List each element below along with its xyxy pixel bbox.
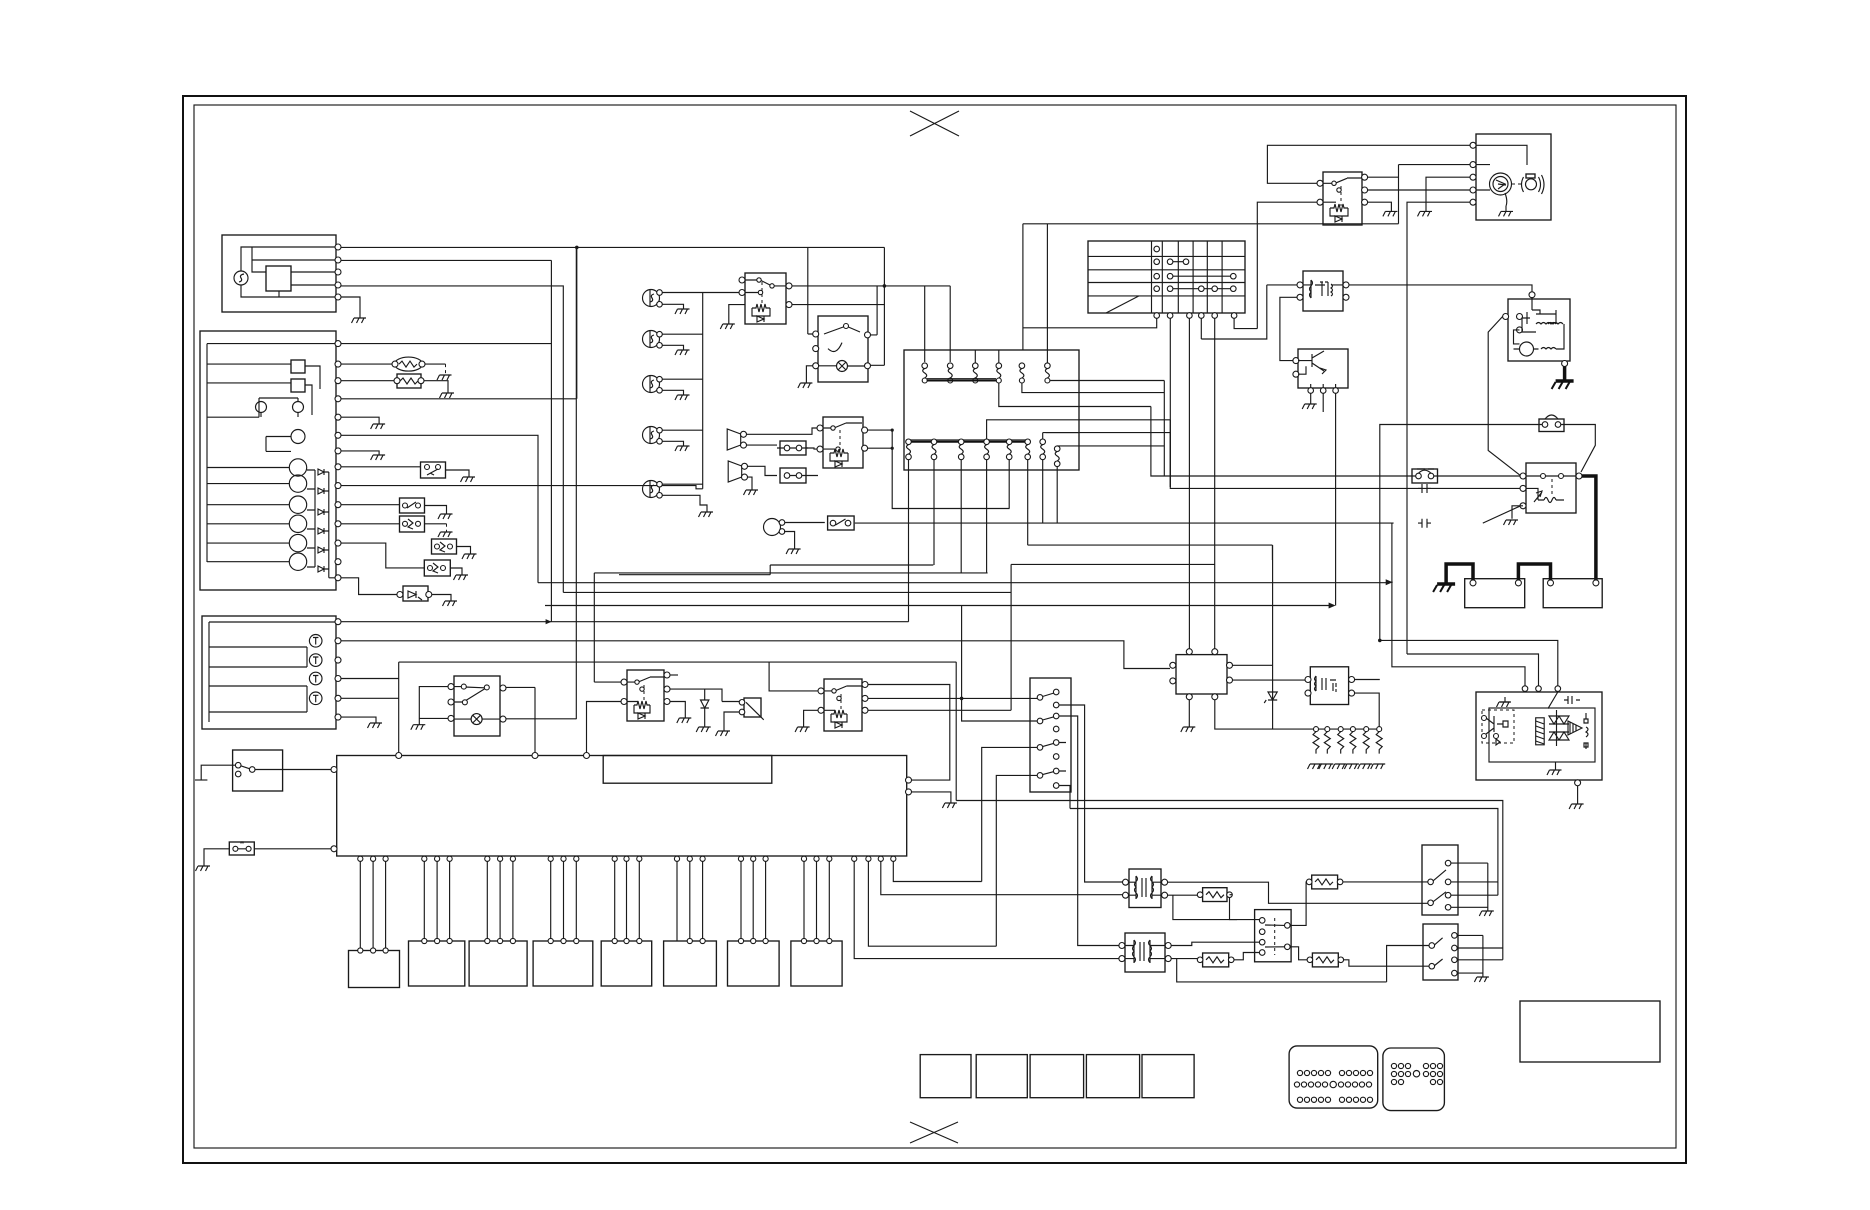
wire: panel pin4 right, down long vertical x575 (341, 247, 576, 719)
wire bundle horizontal y605 to transistor arrow (545, 605, 1332, 607)
relay G starter relay box (1526, 463, 1576, 513)
fuse top row 5 (1019, 363, 1025, 383)
pulse coil windings (1310, 280, 1329, 298)
fusible link (1412, 469, 1438, 483)
transistor bottom pins (1308, 388, 1314, 394)
wire: bar via fuse4 up then exits right (987, 420, 1171, 439)
gauge circle 3 (289, 496, 306, 513)
ECU bottom terminal group 4 (548, 856, 553, 861)
gauge circle 6 (289, 553, 306, 570)
wire: ECU right pin2 to ground (912, 792, 951, 803)
ignition coil 1 box (1129, 869, 1161, 908)
connector blade 2 (1037, 718, 1043, 724)
ground (462, 554, 477, 559)
wire: bulb5 to bus and ground (662, 484, 707, 512)
ECU bottom right group wires to ignition (852, 856, 857, 861)
battery 2 (1543, 579, 1602, 608)
wire: grid pin4 to pulse coil (1201, 285, 1298, 339)
resistor R2 (1203, 953, 1229, 967)
wire: grid pin1 to ignition feed riser (1023, 318, 1157, 328)
indicator panel 2 (202, 616, 336, 729)
ignition key switch box (1476, 134, 1551, 220)
main fuse (1539, 419, 1564, 432)
wire: ignition feed from key switch (1023, 224, 1399, 350)
load box 6 (664, 941, 717, 986)
wire: panel pin5 to ground (341, 417, 379, 424)
wire: panel pin3 to resistor box (341, 380, 394, 382)
wire: relay K left pin2 to long riser (1257, 202, 1317, 328)
headlight bulb 4 (643, 427, 663, 445)
pulse coil box (1303, 271, 1343, 311)
wire: connector pin3 loop down to ignition (982, 747, 1037, 881)
wire: alternator pin2 right then down to passing switch (341, 259, 551, 261)
fuse top row 6 (1045, 363, 1051, 383)
connector box B (780, 468, 806, 483)
wire: connector pin4 loop down (996, 775, 1037, 946)
horn 2 (728, 461, 742, 482)
inline connector on buzzer line (1418, 519, 1431, 528)
pad B center hole (1413, 1071, 1419, 1077)
fuse bottom row 4 (984, 439, 990, 470)
relay A diode (757, 316, 764, 322)
wire: ECU right exit lower path (955, 662, 957, 801)
relay A contacts (745, 280, 786, 293)
wire: relay D left pin2 to ECU top (587, 702, 622, 753)
wire sidestand to ground (724, 712, 739, 731)
pad B dots right grid (1423, 1063, 1442, 1084)
ignition coil 2 box (1125, 933, 1165, 972)
wire: panel pin11 to switch 3 (341, 523, 400, 525)
fuse bottom row 5 (1006, 439, 1012, 470)
load box 7 (728, 941, 780, 986)
wires inside alternator box (241, 247, 338, 297)
wire: ECU out A (854, 861, 1122, 958)
starter interlock unit box (1508, 299, 1570, 361)
CDI inner frame (1489, 708, 1595, 762)
pad A pin dots row2 right (1338, 1082, 1371, 1087)
wire: relay F right pin3 to riser (868, 709, 1011, 711)
spark plug connector block (1255, 910, 1292, 962)
switch lever (454, 687, 486, 702)
resistor R4 (1312, 953, 1338, 967)
wire: panel2 pin5 to ECU top (341, 697, 399, 699)
spark plug switch box A (1422, 845, 1458, 915)
ground (942, 803, 957, 808)
wire: passing switch pin riser (871, 286, 878, 335)
CDI unit box (1476, 692, 1602, 780)
buzzer switch box (828, 516, 855, 530)
load box 4 (533, 941, 593, 986)
relay G coil and diode (1526, 488, 1564, 502)
wire: coil2 right top to connector pin3 (1171, 942, 1259, 945)
wire: diode unit to ECU (254, 848, 331, 850)
ground (438, 532, 453, 537)
wire: connector to resistor R4 (1290, 947, 1307, 960)
relay K diode (1335, 216, 1342, 222)
pad A pin dots row2 left (1294, 1082, 1327, 1087)
ground (371, 455, 386, 460)
ground (675, 446, 690, 451)
wire: grid feed line to zener top (1028, 545, 1273, 560)
wire: relay K right pin3 to ground (1368, 202, 1392, 211)
spare square 2 (976, 1055, 1027, 1098)
heavy ground (1433, 584, 1455, 592)
wire: main fuse right to relay G (1561, 425, 1596, 473)
grid diagonal (1106, 296, 1139, 313)
ground (461, 477, 476, 482)
switch component 2 (400, 498, 425, 513)
wire bundle horizontal y592 (563, 591, 1011, 593)
wire: fuse6 bottom exits right (1050, 381, 1164, 477)
wire: regulator bottom left to ground (1188, 700, 1190, 727)
CDI ground top-left (1500, 697, 1510, 702)
headlight bulb 2 (643, 331, 663, 349)
ground (1504, 520, 1519, 525)
spare square 3 (1030, 1055, 1084, 1098)
CDI hatched capacitor (1536, 718, 1545, 745)
thick battery 1 to ground (1446, 564, 1473, 584)
wire buzzer to ground (784, 532, 795, 550)
fuse bottom row 2 (931, 439, 937, 470)
pad A pin dots row1 left (1297, 1070, 1330, 1075)
connector square 1 inside panel (291, 360, 305, 373)
wire: relay F left pin2 to ground (804, 710, 818, 727)
ground (1181, 727, 1196, 732)
CDI bottom terminal to ground (1575, 780, 1581, 786)
fuse bottom row 1 (906, 439, 912, 470)
diagonal from buzzer line to relay G pin3 (1483, 506, 1521, 523)
wire: key switch pin1 loop to relay K (1267, 145, 1470, 183)
relay A headlamp relay box (745, 273, 786, 324)
lamp bus vertical (702, 293, 704, 489)
connector box A (780, 441, 806, 455)
inline connector on wire (1418, 484, 1431, 493)
ground (368, 723, 383, 728)
wire bundle horizontal y573 (594, 573, 987, 682)
indicator lamp 3 (309, 672, 322, 685)
wire: relay F left pin1 feed (399, 662, 957, 691)
wire: alternator pin4 to headlamp relay (341, 286, 563, 593)
wire: bar right end down then exits right (999, 383, 1151, 407)
pilot buzzer (764, 519, 781, 536)
ground (696, 727, 711, 732)
wire: fuse exit down to buzzer line (1169, 433, 1171, 487)
spare square 5 (1142, 1055, 1194, 1098)
headlight bulb 3 (643, 376, 663, 394)
ground (411, 725, 426, 730)
X mark bottom (910, 1122, 958, 1143)
CDI inner ground (1555, 762, 1557, 770)
CDI diode bridge (1549, 710, 1569, 746)
fuse bottom row 8 (1054, 446, 1164, 470)
ECU bottom terminal group 6 (674, 856, 679, 861)
wire: relay D right pin2 with diode branch and sidestand switch (670, 689, 741, 701)
ground (1383, 211, 1398, 216)
wire: panel2 pin2 long feed to coil area (341, 641, 1170, 669)
meter circle (291, 430, 305, 444)
grid rows (1088, 256, 1245, 296)
connector pad A rounded (1289, 1046, 1378, 1108)
indicator lamp in switch (837, 361, 848, 372)
wire: switch to ECU (255, 769, 331, 771)
border outer frame (183, 96, 1686, 1163)
wire: relay A coil to ground (729, 305, 745, 324)
headlight bulb 5 (643, 481, 663, 499)
wire: fuse5 bottom down then right exits box (1022, 383, 1164, 393)
thick wire relay G to battery 2 (1582, 476, 1596, 583)
key buzzer (1526, 179, 1537, 190)
ground (1569, 804, 1584, 809)
wire: panel pin6 to ground (341, 435, 538, 582)
wire: grid pin6 to relay riser (1234, 318, 1257, 328)
ECU bottom terminal group 8 (801, 856, 806, 861)
ground (675, 350, 690, 355)
thick battery interlink (1518, 564, 1550, 580)
wire horn1 to relay C (747, 428, 818, 445)
ground (795, 727, 810, 732)
ECU bottom terminal group 2 (422, 856, 427, 861)
wire: ECU out C (881, 861, 1126, 894)
transistor unit box (1298, 349, 1348, 388)
regulator block inside alternator box (266, 266, 291, 291)
ground (744, 490, 759, 495)
diode assembly box (403, 586, 428, 601)
regulator rectifier box (1176, 655, 1227, 694)
load box 5 (601, 941, 652, 986)
wire: relay H right pin2 to resistor bus riser (1355, 693, 1380, 729)
wire: switch to ground (201, 765, 235, 780)
ECU bottom terminal group 5 (612, 856, 617, 861)
wire: relay A right pin2 feeds fuse tops (792, 286, 950, 362)
heavy ground (1552, 381, 1574, 389)
wire horn2 down to ground (748, 466, 778, 490)
long verticals from fuse bottom row (909, 470, 1058, 622)
ground (352, 318, 367, 323)
wire: relay D right pin1 stub (670, 674, 678, 676)
wire: ECU out B (868, 861, 996, 946)
wire: panel2 pin1 joins main feed (341, 621, 909, 623)
wire to ground (424, 381, 448, 393)
wire: bulb4 to bus (662, 430, 703, 446)
wire: connector to resistor R3 (1290, 882, 1306, 926)
diode ladder bus inside panel (307, 470, 335, 578)
headlight bulb 1 (643, 290, 663, 308)
wire: panel pin14 to diode assembly (341, 578, 399, 595)
resistor R3 (1312, 875, 1338, 889)
wire: relay H right pin1 up riser (1355, 679, 1380, 681)
inner frame lines of instrument panel (207, 344, 336, 562)
relay K coil (1330, 204, 1348, 216)
pad A pin dots row3 left (1297, 1097, 1330, 1102)
wire: coil1 right top to spark switch A (1168, 882, 1428, 903)
transistor symbol (1298, 351, 1326, 374)
alternator symbol (234, 271, 248, 285)
relay H internals (1315, 676, 1337, 692)
switch component 3 (400, 516, 425, 532)
connector blade 4 (1037, 773, 1043, 779)
ground (371, 424, 386, 429)
wire: loop from R2 line up to switch B (1387, 946, 1429, 982)
panel 2 terminals (335, 619, 341, 625)
switch lever (824, 326, 860, 352)
wire: R4 to spark switch B (1344, 960, 1429, 966)
wire: panel2 pin4 right (341, 678, 399, 680)
wire: coil1 right bottom through resistor R1 (1168, 895, 1237, 919)
box: alternator assembly (222, 235, 336, 312)
fuse bottom row 7 (1040, 433, 1079, 470)
wire resistor to dashed ground (425, 363, 446, 365)
wire: bulb1 to bus and relay (662, 293, 742, 310)
ignition switch connection grid box (1088, 241, 1245, 313)
wire: panel pin2 to fuel resistor (341, 363, 392, 365)
wire: relay D left pin1 from riser (594, 681, 621, 683)
fuse top row 2 (947, 363, 953, 383)
wire: fuse exit to fusible link to relay G (1151, 407, 1521, 477)
wire: fuse7 exit wire continues (1046, 432, 1171, 434)
connector square 2 inside panel (291, 379, 305, 392)
passing switch box (818, 316, 868, 382)
fuse bottom row 3 (958, 439, 964, 470)
fuse top row 4 (996, 350, 1002, 383)
wire connector A to relay C pin (806, 448, 817, 449)
ground (1479, 911, 1494, 916)
wire: switch right pin2 joins riser x575 (506, 718, 576, 720)
ECU bottom terminal group 7 (738, 856, 743, 861)
wire: starter unit top from pulse coil junction (1531, 297, 1533, 299)
wires: switch A right pins to bus and ground (1451, 863, 1498, 911)
relay D coil (634, 701, 650, 713)
relay D diode (638, 713, 645, 719)
fuse bottom row 6 (1025, 439, 1031, 470)
fuse top row 1 (922, 363, 928, 383)
ground (1474, 977, 1489, 982)
ground (675, 395, 690, 400)
resistor R1 (1203, 888, 1227, 902)
legend box bottom right (1520, 1001, 1660, 1062)
wire: pulse coil to starter unit (1349, 285, 1532, 299)
relay H box (1310, 667, 1348, 705)
ECU top terminals (396, 753, 402, 759)
wire: connector right pin to coil2 hot (1059, 716, 1122, 946)
ground (798, 383, 813, 388)
square resistor (397, 374, 421, 388)
ground inside key box (1499, 211, 1514, 216)
switch component 5 (424, 560, 450, 576)
coil 1 windings (1129, 876, 1162, 899)
pad A pin dots row3 right (1339, 1097, 1372, 1102)
ground (440, 393, 455, 398)
wire: key pin5 long down feed (1407, 202, 1470, 654)
diagonal link from starter unit to relay G (1488, 317, 1520, 476)
relay F box (824, 679, 862, 731)
wire: lower CDI feed line second (1059, 786, 1498, 882)
wire bundle horizontal y583 with arrow to battery cable (538, 582, 1386, 584)
relay F diode (835, 722, 842, 728)
bank resistor 1 (1308, 727, 1323, 769)
wire: connector right pin feeds coil1 hot (1059, 705, 1126, 882)
wire: long vertical to fuse6 top (1046, 224, 1048, 363)
wire: regulator bottom right to resistor bus (1215, 700, 1316, 729)
relay C turn signal relay box (823, 417, 863, 468)
ground (699, 512, 714, 517)
wire: alternator pin5 to ground (341, 297, 360, 318)
grid columns (1152, 241, 1223, 313)
wire: panel pin1 right and down (341, 260, 551, 621)
switch component 4 (432, 539, 457, 554)
wire: fuse exit to relay G pin2 with connector (1170, 420, 1520, 489)
wire: R1 to connector pin1 (1230, 898, 1260, 920)
ground (196, 866, 211, 871)
diodes on ladder (318, 469, 324, 572)
wire: relay K right pin2 to key pin4 (1368, 189, 1470, 191)
wire: R2 to connector pin4 (1234, 953, 1259, 960)
switch component 1 (421, 462, 446, 478)
headlight switch box (454, 676, 500, 736)
starter unit bottom terminal (1562, 361, 1568, 367)
connector blade 1 (1037, 695, 1043, 701)
indicator lamp 4 (309, 692, 322, 705)
wire to ground from switch (806, 366, 812, 383)
wire: diode unit to ground (204, 849, 229, 866)
wire: alternator pin1 right then down at x563 (341, 247, 884, 398)
wire: bulb2 to bus (662, 334, 703, 350)
wire: connector pin2 from bundle riser (962, 606, 1037, 722)
gauge circle 2 (289, 475, 306, 492)
load box 3 (469, 941, 527, 986)
bank resistor 6 (1371, 727, 1386, 769)
ECU top notch block (603, 756, 772, 784)
load box 2 (409, 941, 465, 986)
handlebar switch connector box (1030, 678, 1071, 792)
bank resistor 4 (1344, 727, 1359, 769)
ground (1418, 211, 1433, 216)
wire: switch right pin1 to ECU riser junction (506, 687, 535, 752)
connector blade 3 (1037, 745, 1043, 751)
neutral safety switch box (233, 750, 283, 791)
key switch rotor (1490, 173, 1512, 195)
wire: relay K right pin1 to key pin2 (1368, 165, 1470, 224)
wire: relay D right pin3 to ground (670, 702, 685, 719)
CDI right components (1584, 713, 1588, 749)
wire: relay F right pin1 to ECU right (868, 685, 950, 781)
relay G contact (1526, 475, 1576, 477)
diode to ground (701, 689, 709, 727)
panel terminal pins (335, 341, 341, 347)
oval resistor (395, 357, 423, 371)
horn 1 (727, 429, 741, 450)
wire: transistor pin2 down (1322, 393, 1324, 412)
CDI feed wires into top pins (1380, 523, 1558, 686)
ground (437, 375, 452, 380)
starter unit internals (1522, 299, 1540, 332)
pad A pin dots row1 right (1339, 1070, 1372, 1075)
wire: main fuse left to feed riser (1380, 425, 1542, 641)
wire: grid pin2 long down (1169, 318, 1171, 487)
switch lamp (471, 714, 482, 725)
fuse bottom row bar (909, 441, 1028, 443)
ECU bottom terminal group 3 (485, 856, 490, 861)
relay A coil (752, 304, 770, 316)
panel 2 inner lines (209, 622, 336, 722)
thick bus bar top row (927, 380, 996, 382)
relay C coil (830, 449, 848, 461)
wire: relay F right pin2 to connector (868, 697, 1037, 699)
relay D box (627, 670, 664, 721)
X mark top (910, 111, 959, 136)
wire: pulse coil lower to transistor unit (1280, 297, 1297, 360)
wire bundle horizontal y565 (619, 565, 933, 575)
wire: panel pin12 routes to switch 5 (341, 543, 424, 568)
